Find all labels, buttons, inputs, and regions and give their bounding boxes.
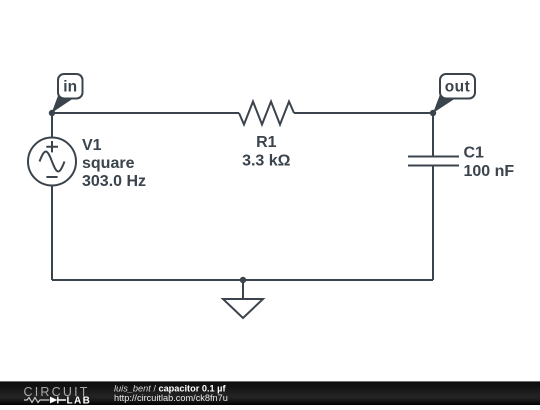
svg-text:in: in (63, 79, 77, 96)
voltage source V1 (28, 138, 76, 186)
wire bottom (52, 279, 433, 281)
wire right vertical upper (432, 113, 434, 157)
V1 plus sign (46, 141, 58, 152)
node flag in pointer (52, 95, 73, 114)
capacitor C1 bottom plate (408, 165, 459, 167)
wire top right segment (294, 112, 433, 114)
node flag out pointer (433, 95, 454, 114)
logo resistor zigzag (24, 398, 50, 403)
resistor R1 (239, 102, 294, 125)
node flag out box (440, 74, 475, 99)
svg-text:100 nF: 100 nF (464, 163, 515, 180)
logo diode (50, 397, 58, 404)
ground junction dot (240, 277, 246, 283)
wire left vertical upper (51, 113, 53, 138)
wire left vertical lower (51, 186, 53, 281)
wire right vertical lower (432, 166, 434, 281)
wire top left segment (52, 112, 239, 114)
ground triangle (223, 299, 263, 318)
node out junction dot (430, 110, 436, 116)
svg-text:C1: C1 (464, 145, 485, 162)
svg-text:R1: R1 (256, 134, 277, 151)
V1 minus sign (46, 176, 57, 178)
svg-text:LAB: LAB (67, 396, 92, 405)
svg-text:V1: V1 (82, 137, 102, 154)
footer bar (0, 381, 540, 405)
svg-text:303.0 Hz: 303.0 Hz (82, 173, 146, 190)
svg-text:3.3 kΩ: 3.3 kΩ (242, 152, 291, 169)
svg-text:out: out (445, 79, 471, 96)
capacitor C1 top plate (408, 156, 459, 158)
V1 sine wave (40, 152, 65, 172)
svg-text:http://circuitlab.com/ck8fn7u: http://circuitlab.com/ck8fn7u (114, 393, 228, 403)
node flag in box (58, 74, 83, 99)
node in junction dot (49, 110, 55, 116)
svg-text:luis_bent / capacitor 0.1 µf: luis_bent / capacitor 0.1 µf (114, 383, 226, 393)
ground stub wire (242, 280, 244, 299)
svg-text:square: square (82, 155, 135, 172)
